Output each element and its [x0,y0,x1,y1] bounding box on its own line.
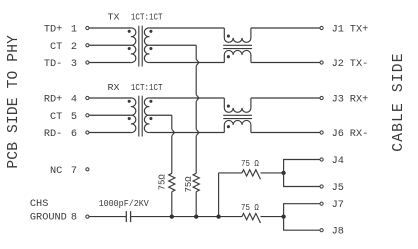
choke L1 (TX) top winding [224,28,251,42]
wire T2 secondary tap to x=172 riser [149,114,172,116]
svg-text:TX+: TX+ [350,24,368,36]
svg-text:6: 6 [71,128,77,140]
wire T1 secondary tap to x=196 riser [149,44,196,46]
wire capacitor to bottom resistor R4 [131,216,242,218]
transformer T2 (RX) primary winding [89,98,136,133]
svg-text:2: 2 [71,41,77,53]
wire fork down to J8 [284,217,320,231]
wire T2 secondary bottom to choke L2 (crosses risers) [149,132,224,134]
pin 7 terminal [86,168,89,171]
wire R4 right lead to fork [261,216,284,218]
transformer T2 (RX) primary centre-tap lead [89,114,131,116]
riser wire from T2 tap down to R1 with crossover jog [171,115,173,129]
wire T2 secondary top to choke L2 (crosses riser) [149,97,224,99]
pin 3 terminal [86,61,89,64]
svg-text:RD+: RD+ [44,94,62,106]
pin J2 terminal [320,61,323,64]
wire choke L2 to J6 [251,132,320,134]
capacitor C1 1000pF/2KV plates [125,211,127,222]
wire pin8 to capacitor C1 [89,216,126,218]
wire T1 secondary top to choke L1 [149,27,224,29]
junction dot rail at R3 riser [216,214,220,218]
transformer T2 (RX) polarity dots [128,100,131,103]
wire fork down to J5 [284,173,320,187]
resistor R1 75ohm vertical [169,173,175,191]
svg-text:GROUND: GROUND [30,212,67,224]
svg-text:TD-: TD- [44,58,62,70]
pin 2 terminal [86,44,89,47]
svg-text:8: 8 [71,212,77,224]
svg-text:TD+: TD+ [44,24,62,36]
junction dot rail at R1 [170,214,174,218]
svg-text:1: 1 [71,24,77,36]
choke L1 (TX) polarity dots [227,35,230,38]
svg-text:7: 7 [71,165,77,177]
transformer T1 (TX) polarity dots [128,30,131,33]
svg-text:J7: J7 [332,199,344,211]
svg-text:5: 5 [71,111,77,123]
svg-text:CT: CT [50,111,62,123]
wire fork up to J4 [284,160,320,173]
resistor R2 75ohm vertical [193,173,199,191]
svg-text:3: 3 [71,58,77,70]
choke L2 (RX) polarity dots [227,105,230,108]
wire fork up to J7 [284,204,320,217]
svg-text:CHS: CHS [30,198,48,210]
transformer T2 (RX) secondary winding [144,98,149,133]
svg-text:J4: J4 [332,155,344,167]
transformer T2 (RX) core [138,96,140,137]
junction dot rail at R2 [194,214,198,218]
svg-text:J5: J5 [332,182,344,194]
svg-text:J3: J3 [332,94,344,106]
wire R3 right lead to fork [261,172,284,174]
svg-text:75Ω: 75Ω [157,174,167,191]
choke L2 (RX) core [223,114,252,116]
svg-text:TX: TX [108,12,120,23]
svg-text:J8: J8 [332,226,344,238]
pin J5 terminal [320,185,323,188]
pin J4 terminal [320,158,323,161]
wire R3 left lead [219,172,242,174]
svg-text:75 Ω: 75 Ω [241,158,259,169]
svg-text:RX+: RX+ [350,94,368,106]
svg-text:CT: CT [50,41,62,53]
svg-text:1CT:1CT: 1CT:1CT [131,82,163,93]
svg-text:J2: J2 [332,58,344,70]
pin J3 terminal [320,96,323,99]
choke L2 (RX) top winding [224,98,251,112]
svg-text:CABLE SIDE: CABLE SIDE [391,52,407,151]
svg-text:NC: NC [50,165,62,177]
svg-text:1CT:1CT: 1CT:1CT [131,12,163,23]
choke L2 (RX) bottom winding [224,120,251,132]
transformer T1 (TX) primary winding [89,28,136,63]
pin 5 terminal [86,114,89,117]
wire choke L2 to J3 [251,97,320,99]
resistor R3 75ohm horizontal [242,170,260,180]
svg-text:J1: J1 [332,24,344,36]
pin J1 terminal [320,26,323,29]
pin 8 terminal [86,215,89,218]
svg-text:1000pF/2KV: 1000pF/2KV [99,198,149,209]
svg-text:RX-: RX- [350,128,368,140]
svg-text:PCB SIDE TO PHY: PCB SIDE TO PHY [6,35,22,169]
wire choke L1 to J1 [251,27,320,29]
pin J7 terminal [320,202,323,205]
resistor R4 75ohm horizontal in rail [242,213,260,223]
pin 4 terminal [86,96,89,99]
wire choke L1 to J2 [251,62,320,64]
pin J6 terminal [320,131,323,134]
junction dot at R4 fork [281,214,285,218]
transformer T2 (RX) primary bottom lead [89,132,131,134]
junction dot at R3 fork [281,171,285,175]
svg-text:RD-: RD- [44,128,62,140]
pin J8 terminal [320,229,323,232]
svg-text:4: 4 [71,94,77,106]
transformer T1 (TX) primary bottom lead [89,62,131,64]
pin 1 terminal [86,26,89,29]
transformer T1 (TX) secondary winding [144,28,149,63]
svg-text:J6: J6 [332,128,344,140]
riser wire from T1 tap down to R2 with crossover jogs [195,45,197,59]
svg-text:75Ω: 75Ω [184,176,194,193]
transformer T1 (TX) core [138,26,140,67]
choke L1 (TX) core [223,44,252,46]
pin 6 terminal [86,131,89,134]
svg-text:75 Ω: 75 Ω [241,202,259,213]
svg-text:TX-: TX- [350,58,368,70]
wire T1 secondary bottom to choke L1 (crosses tap riser) [149,62,224,64]
transformer T1 (TX) primary centre-tap lead [89,44,131,46]
wire riser from bottom rail up to R3 [218,173,220,217]
svg-text:RX: RX [108,82,120,93]
choke L1 (TX) bottom winding [224,50,251,62]
